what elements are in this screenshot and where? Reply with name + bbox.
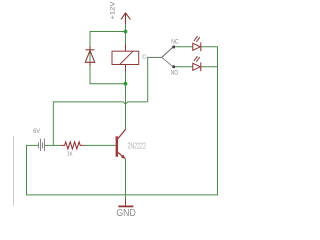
svg-text:1K: 1K — [67, 152, 73, 158]
wire: NO square to LED2 — [175, 66, 193, 68]
node junction dot top — [124, 30, 128, 34]
wire: riser to relay common — [147, 57, 149, 102]
NC contact square — [172, 46, 175, 49]
svg-text:NC: NC — [171, 40, 179, 46]
supply +12V arrow symbol — [121, 13, 130, 24]
wire: diode branch vertical (through symbol) — [89, 31, 91, 84]
wire: junction down to transistor collector — [125, 84, 127, 130]
wire: long horizontal with hop over collector — [53, 102, 147, 104]
wire: battery to resistor — [45, 144, 60, 146]
wire: diode to coil-bottom junction — [90, 83, 126, 85]
NO contact square — [172, 65, 175, 68]
svg-text:GND: GND — [116, 208, 135, 219]
relay coil K1 — [112, 44, 139, 71]
relay contact arm to NO — [162, 57, 173, 66]
battery B1 6V — [39, 139, 45, 152]
diode D1 flyback — [85, 46, 94, 66]
svg-text:NO: NO — [171, 71, 179, 77]
LED2 (NO row) — [193, 56, 201, 71]
transistor Q1 2N2222 — [116, 129, 126, 159]
wire: resistor to base — [84, 144, 115, 146]
wire: common lead to pivot — [147, 56, 162, 58]
LED1 (NC row) — [193, 36, 201, 51]
faint page artifact line left — [13, 136, 15, 206]
wire: battery left lead — [26, 144, 38, 146]
wire: bottom bus horizontal — [26, 194, 218, 196]
ground symbol GND — [118, 199, 133, 206]
resistor R1 1K — [60, 142, 84, 149]
wire: left column — [26, 145, 28, 196]
wire: LED2 to right bus — [201, 66, 218, 68]
wire: NC square to LED1 — [175, 46, 193, 48]
wire: LED1 to right bus — [201, 46, 218, 48]
node junction dot bottom of coil — [124, 82, 128, 86]
svg-text:2N2222: 2N2222 — [128, 140, 147, 150]
wire: supply arrow to junction — [125, 24, 127, 32]
wire: junction down to relay coil pin — [125, 32, 127, 45]
wire: right bus vertical — [217, 47, 219, 196]
wire: top horizontal to diode — [90, 31, 126, 33]
svg-text:6V: 6V — [33, 128, 40, 135]
svg-text:+12V: +12V — [110, 1, 117, 20]
wire: emitter down to ground — [125, 159, 127, 199]
svg-text:C: C — [142, 55, 146, 61]
wire: coil bottom to junction — [125, 71, 127, 84]
wire: riser down to battery/resistor node — [52, 101, 54, 145]
relay contact arm to NC — [162, 48, 173, 58]
